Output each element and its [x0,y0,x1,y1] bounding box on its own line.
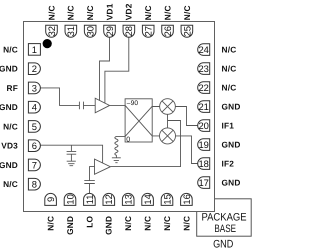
svg-text:GND: GND [65,216,75,235]
svg-text:GND: GND [222,140,241,150]
svg-text:BASE: BASE [214,223,236,235]
svg-text:7: 7 [32,159,37,170]
svg-text:29: 29 [104,26,115,36]
svg-text:RF: RF [7,83,18,93]
svg-text:N/C: N/C [46,216,56,231]
svg-text:20: 20 [198,120,208,131]
svg-text:31: 31 [65,26,76,36]
svg-text:N/C: N/C [3,44,18,54]
svg-text:N/C: N/C [123,216,133,231]
svg-text:1: 1 [32,44,37,55]
svg-text:12: 12 [103,194,114,204]
svg-text:26: 26 [162,26,173,36]
svg-text:13: 13 [123,194,134,204]
svg-text:IF1: IF1 [222,121,235,131]
svg-text:27: 27 [143,26,154,36]
svg-text:25: 25 [181,26,192,36]
svg-text:GND: GND [0,64,18,74]
svg-text:–90: –90 [127,100,139,107]
svg-text:PACKAGE: PACKAGE [202,212,247,224]
svg-text:28: 28 [123,26,134,36]
svg-text:32: 32 [46,26,57,36]
svg-text:24: 24 [198,44,208,55]
svg-text:14: 14 [142,194,153,204]
svg-text:N/C: N/C [46,5,56,20]
svg-text:N/C: N/C [222,64,237,74]
svg-text:N/C: N/C [182,5,192,20]
svg-text:N/C: N/C [3,121,18,131]
svg-text:8: 8 [32,179,37,190]
svg-text:GND: GND [222,102,241,112]
svg-text:N/C: N/C [162,216,172,231]
svg-text:10: 10 [64,194,75,204]
svg-text:16: 16 [181,194,192,204]
svg-text:IF2: IF2 [222,159,235,169]
svg-text:N/C: N/C [162,5,172,20]
svg-text:GND: GND [0,160,18,170]
svg-text:GND: GND [213,238,233,250]
svg-text:2: 2 [32,63,37,74]
svg-text:15: 15 [161,194,172,204]
svg-text:9: 9 [45,197,56,202]
svg-text:VD2: VD2 [124,3,134,20]
svg-text:N/C: N/C [222,83,237,93]
svg-text:VD3: VD3 [1,141,18,151]
svg-text:17: 17 [198,177,208,188]
svg-text:N/C: N/C [181,216,191,231]
svg-text:18: 18 [198,158,208,169]
svg-text:N/C: N/C [143,216,153,231]
svg-text:5: 5 [32,121,37,132]
svg-text:N/C: N/C [3,179,18,189]
svg-text:4: 4 [32,102,37,113]
svg-text:GND: GND [0,102,18,112]
svg-text:VD1: VD1 [104,3,114,20]
svg-text:LO: LO [84,215,94,227]
svg-text:GND: GND [222,178,241,188]
svg-text:N/C: N/C [66,5,76,20]
svg-text:22: 22 [198,82,208,93]
svg-text:0: 0 [126,136,130,143]
svg-text:23: 23 [198,63,208,74]
svg-text:30: 30 [85,26,96,36]
svg-text:21: 21 [198,101,208,112]
svg-text:GND: GND [104,216,114,235]
svg-text:3: 3 [32,82,37,93]
svg-text:N/C: N/C [143,5,153,20]
svg-text:6: 6 [32,140,37,151]
svg-text:N/C: N/C [222,45,237,55]
svg-text:11: 11 [84,195,95,205]
svg-text:N/C: N/C [85,5,95,20]
svg-text:19: 19 [198,139,208,150]
